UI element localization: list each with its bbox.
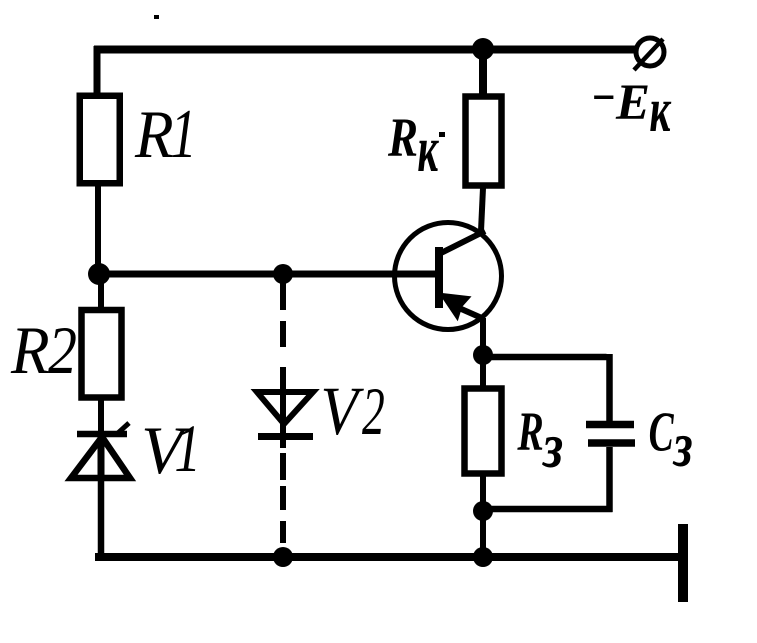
- wire emitter: [480, 318, 486, 352]
- label Rk: [387, 107, 439, 186]
- wire base: [98, 271, 437, 278]
- wire collector: [481, 188, 483, 231]
- wire R2 to V1: [98, 399, 104, 433]
- node Re bottom junction: [473, 501, 493, 521]
- wire V1 to bottom rail: [98, 477, 105, 557]
- diode V1: [71, 423, 130, 478]
- capacitor Ce: [586, 425, 635, 444]
- wire R1 to base node: [95, 186, 101, 274]
- svg-text:1: 1: [170, 96, 196, 173]
- node rail emitter junction: [473, 547, 493, 567]
- resistor R2: [82, 310, 122, 398]
- wire Rk drop: [479, 49, 487, 95]
- speck: [439, 132, 445, 137]
- label Ce: [649, 402, 693, 480]
- wire node to bottom rail: [480, 511, 486, 557]
- label -Ek: [594, 65, 672, 145]
- wire dashed V2 upper: [280, 283, 286, 392]
- svg-text:R: R: [134, 97, 174, 173]
- wire capacitor top branch: [483, 354, 610, 421]
- svg-text:к: к: [649, 74, 671, 145]
- wire emitter to Re: [480, 355, 486, 387]
- ground chassis bar: [678, 524, 688, 602]
- svg-text:–: –: [594, 65, 614, 120]
- svg-text:E: E: [615, 75, 650, 131]
- svg-text:з: з: [672, 410, 693, 481]
- label R2: [10, 313, 77, 389]
- diode V2: [257, 392, 313, 437]
- terminal -Ek: [634, 38, 664, 70]
- label Re: [517, 402, 564, 482]
- node rail V2 junction: [273, 547, 293, 567]
- transistor V (PNP): [395, 223, 502, 330]
- wire bottom rail: [95, 553, 680, 561]
- svg-text:з: з: [541, 410, 563, 482]
- node junction top (rail to Rk): [472, 38, 494, 60]
- wire left drop from rail: [94, 46, 101, 98]
- node V2 top junction: [273, 264, 293, 284]
- node base junction: [88, 263, 110, 285]
- svg-text:2: 2: [362, 373, 385, 449]
- wire top rail: [94, 46, 637, 54]
- resistor Rk: [466, 97, 502, 186]
- svg-text:1: 1: [174, 412, 201, 487]
- svg-text:C: C: [649, 402, 675, 463]
- wire node to R2: [98, 274, 104, 308]
- wire capacitor bottom branch: [483, 447, 613, 512]
- label R1: [134, 96, 197, 173]
- label V2: [321, 373, 385, 450]
- speck: [154, 15, 159, 19]
- wire dashed V2 lower: [280, 438, 286, 543]
- node emitter junction: [473, 345, 493, 365]
- resistor R1: [80, 96, 120, 184]
- svg-text:2: 2: [48, 313, 77, 388]
- svg-text:R: R: [10, 313, 50, 389]
- wire Re to node: [480, 476, 486, 511]
- svg-text:R: R: [387, 107, 418, 168]
- label V1: [141, 412, 201, 488]
- svg-text:R: R: [517, 402, 544, 463]
- svg-text:к: к: [417, 112, 439, 185]
- resistor Re: [465, 389, 502, 474]
